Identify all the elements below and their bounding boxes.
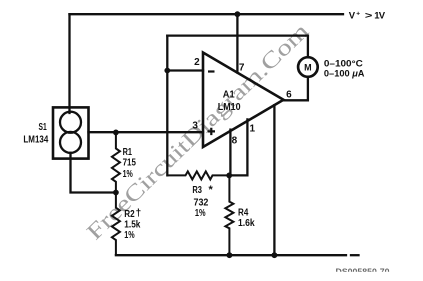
svg-text:1.6k: 1.6k <box>238 218 255 229</box>
wire feedback vertical <box>166 36 168 176</box>
wire left vertical from rail to S1 <box>68 14 70 113</box>
S1 box <box>53 107 89 158</box>
svg-text:1%: 1% <box>123 169 133 180</box>
wire output pin 6 to meter <box>284 77 308 100</box>
svg-text:M: M <box>304 63 312 73</box>
svg-text:R3: R3 <box>192 185 202 196</box>
resistor R4 <box>225 175 233 255</box>
svg-text:*: * <box>209 184 214 196</box>
svg-text:LM10: LM10 <box>218 102 241 113</box>
S1 current source circle top <box>60 112 81 133</box>
svg-text:R2: R2 <box>124 209 135 220</box>
junction node R3/R4/pin8/pin1 <box>226 173 232 179</box>
junction node R4 bottom on rail <box>227 252 233 258</box>
junction node R1 bottom / R2 top <box>113 190 119 196</box>
wire pin 2 input <box>167 69 203 71</box>
svg-text:8: 8 <box>232 135 238 146</box>
svg-text:2: 2 <box>194 57 200 68</box>
junction node pin 2 <box>164 68 170 74</box>
wire meter top <box>307 36 309 57</box>
svg-text:7: 7 <box>239 63 245 74</box>
svg-text:S1: S1 <box>39 122 47 133</box>
svg-text:732: 732 <box>194 197 209 208</box>
svg-text:>: > <box>365 11 373 22</box>
svg-text:3: 3 <box>192 121 198 132</box>
wire pin 4 to bottom rail <box>273 105 275 255</box>
label V+ > 1V <box>349 10 386 21</box>
svg-text:LM134: LM134 <box>23 134 48 145</box>
svg-text:1.5k: 1.5k <box>124 220 140 231</box>
meter M circle <box>298 57 318 77</box>
svg-text:R1: R1 <box>123 147 133 158</box>
junction node pin4 on rail <box>272 252 278 258</box>
wire pin 8 <box>229 130 231 176</box>
svg-text:1: 1 <box>250 123 256 134</box>
svg-text:†: † <box>136 208 142 219</box>
wire feedback top horizontal <box>167 34 308 36</box>
op-amp plus input symbol <box>208 128 215 135</box>
wire V+ top rail <box>70 13 344 15</box>
svg-text:1%: 1% <box>124 230 134 241</box>
wire bottom rail <box>116 254 346 256</box>
S1 current source circle bottom <box>60 132 81 153</box>
svg-text:V: V <box>349 11 356 22</box>
svg-text:1%: 1% <box>195 208 206 219</box>
svg-text:R4: R4 <box>238 207 249 218</box>
svg-text:715: 715 <box>123 157 137 168</box>
wire pin 1 <box>229 119 247 175</box>
wire S1 bottom to R1/R2 node <box>71 153 116 193</box>
junction node at top rail / pin7 <box>235 11 241 17</box>
svg-text:+: + <box>356 10 360 17</box>
op-amp A1 triangle <box>203 53 284 148</box>
svg-text:V: V <box>379 11 386 22</box>
svg-text:0–100°C: 0–100°C <box>324 58 363 68</box>
resistor R1 <box>112 132 120 192</box>
resistor R3 <box>167 171 229 179</box>
svg-text:A1: A1 <box>223 89 235 100</box>
junction node pin3 / R1 top <box>113 130 119 136</box>
wire pin 7 from rail <box>236 14 238 72</box>
wire S1 right to pin 3 <box>89 131 204 133</box>
wire dash at rail right end <box>351 254 359 256</box>
svg-text:6: 6 <box>286 90 292 101</box>
resistor R2 <box>112 193 120 256</box>
op-amp minus input symbol <box>208 70 215 72</box>
svg-text:0–100 μA: 0–100 μA <box>324 68 365 78</box>
